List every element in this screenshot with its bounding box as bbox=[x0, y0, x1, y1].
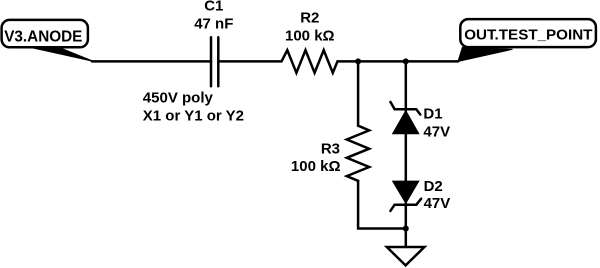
svg-text:C1: C1 bbox=[204, 0, 223, 15]
wire R3 to bottom rail bbox=[358, 181, 406, 229]
wire C1 to R2 bbox=[218, 60, 281, 63]
wire D2 to bottom node bbox=[405, 203, 408, 228]
wire R2 to flag anchor bbox=[338, 60, 459, 63]
wire junction to R3 bbox=[357, 61, 360, 125]
node junction bottom bbox=[403, 226, 409, 232]
svg-text:100 kΩ: 100 kΩ bbox=[291, 158, 341, 175]
svg-text:450V poly: 450V poly bbox=[143, 90, 214, 107]
ground bbox=[387, 247, 425, 265]
svg-text:OUT.TEST_POINT: OUT.TEST_POINT bbox=[464, 26, 593, 43]
flag OUT.TEST_POINT bbox=[458, 19, 596, 61]
svg-text:47V: 47V bbox=[424, 195, 451, 212]
svg-text:V3.ANODE: V3.ANODE bbox=[4, 28, 82, 45]
resistor R3 bbox=[291, 126, 369, 181]
svg-text:47V: 47V bbox=[423, 123, 450, 140]
svg-text:47 nF: 47 nF bbox=[194, 15, 233, 32]
svg-text:R3: R3 bbox=[321, 141, 340, 158]
zener diode D1 bbox=[390, 102, 450, 140]
wire left to C1 bbox=[92, 60, 211, 63]
svg-text:R2: R2 bbox=[300, 9, 319, 26]
node junction at diodes bbox=[403, 58, 409, 64]
resistor R2 bbox=[282, 9, 338, 72]
svg-text:X1 or Y1 or Y2: X1 or Y1 or Y2 bbox=[143, 107, 244, 124]
wire D1 to D2 bbox=[405, 134, 408, 181]
node junction at R3 bbox=[355, 58, 361, 64]
capacitor C1 bbox=[143, 0, 244, 124]
svg-text:D1: D1 bbox=[423, 106, 442, 123]
svg-text:D2: D2 bbox=[424, 178, 443, 195]
svg-text:100 kΩ: 100 kΩ bbox=[285, 27, 335, 44]
wire to ground bbox=[405, 229, 408, 248]
wire junction to D1 bbox=[405, 61, 408, 111]
flag V3.ANODE bbox=[2, 20, 94, 62]
zener diode D2 bbox=[390, 178, 450, 212]
